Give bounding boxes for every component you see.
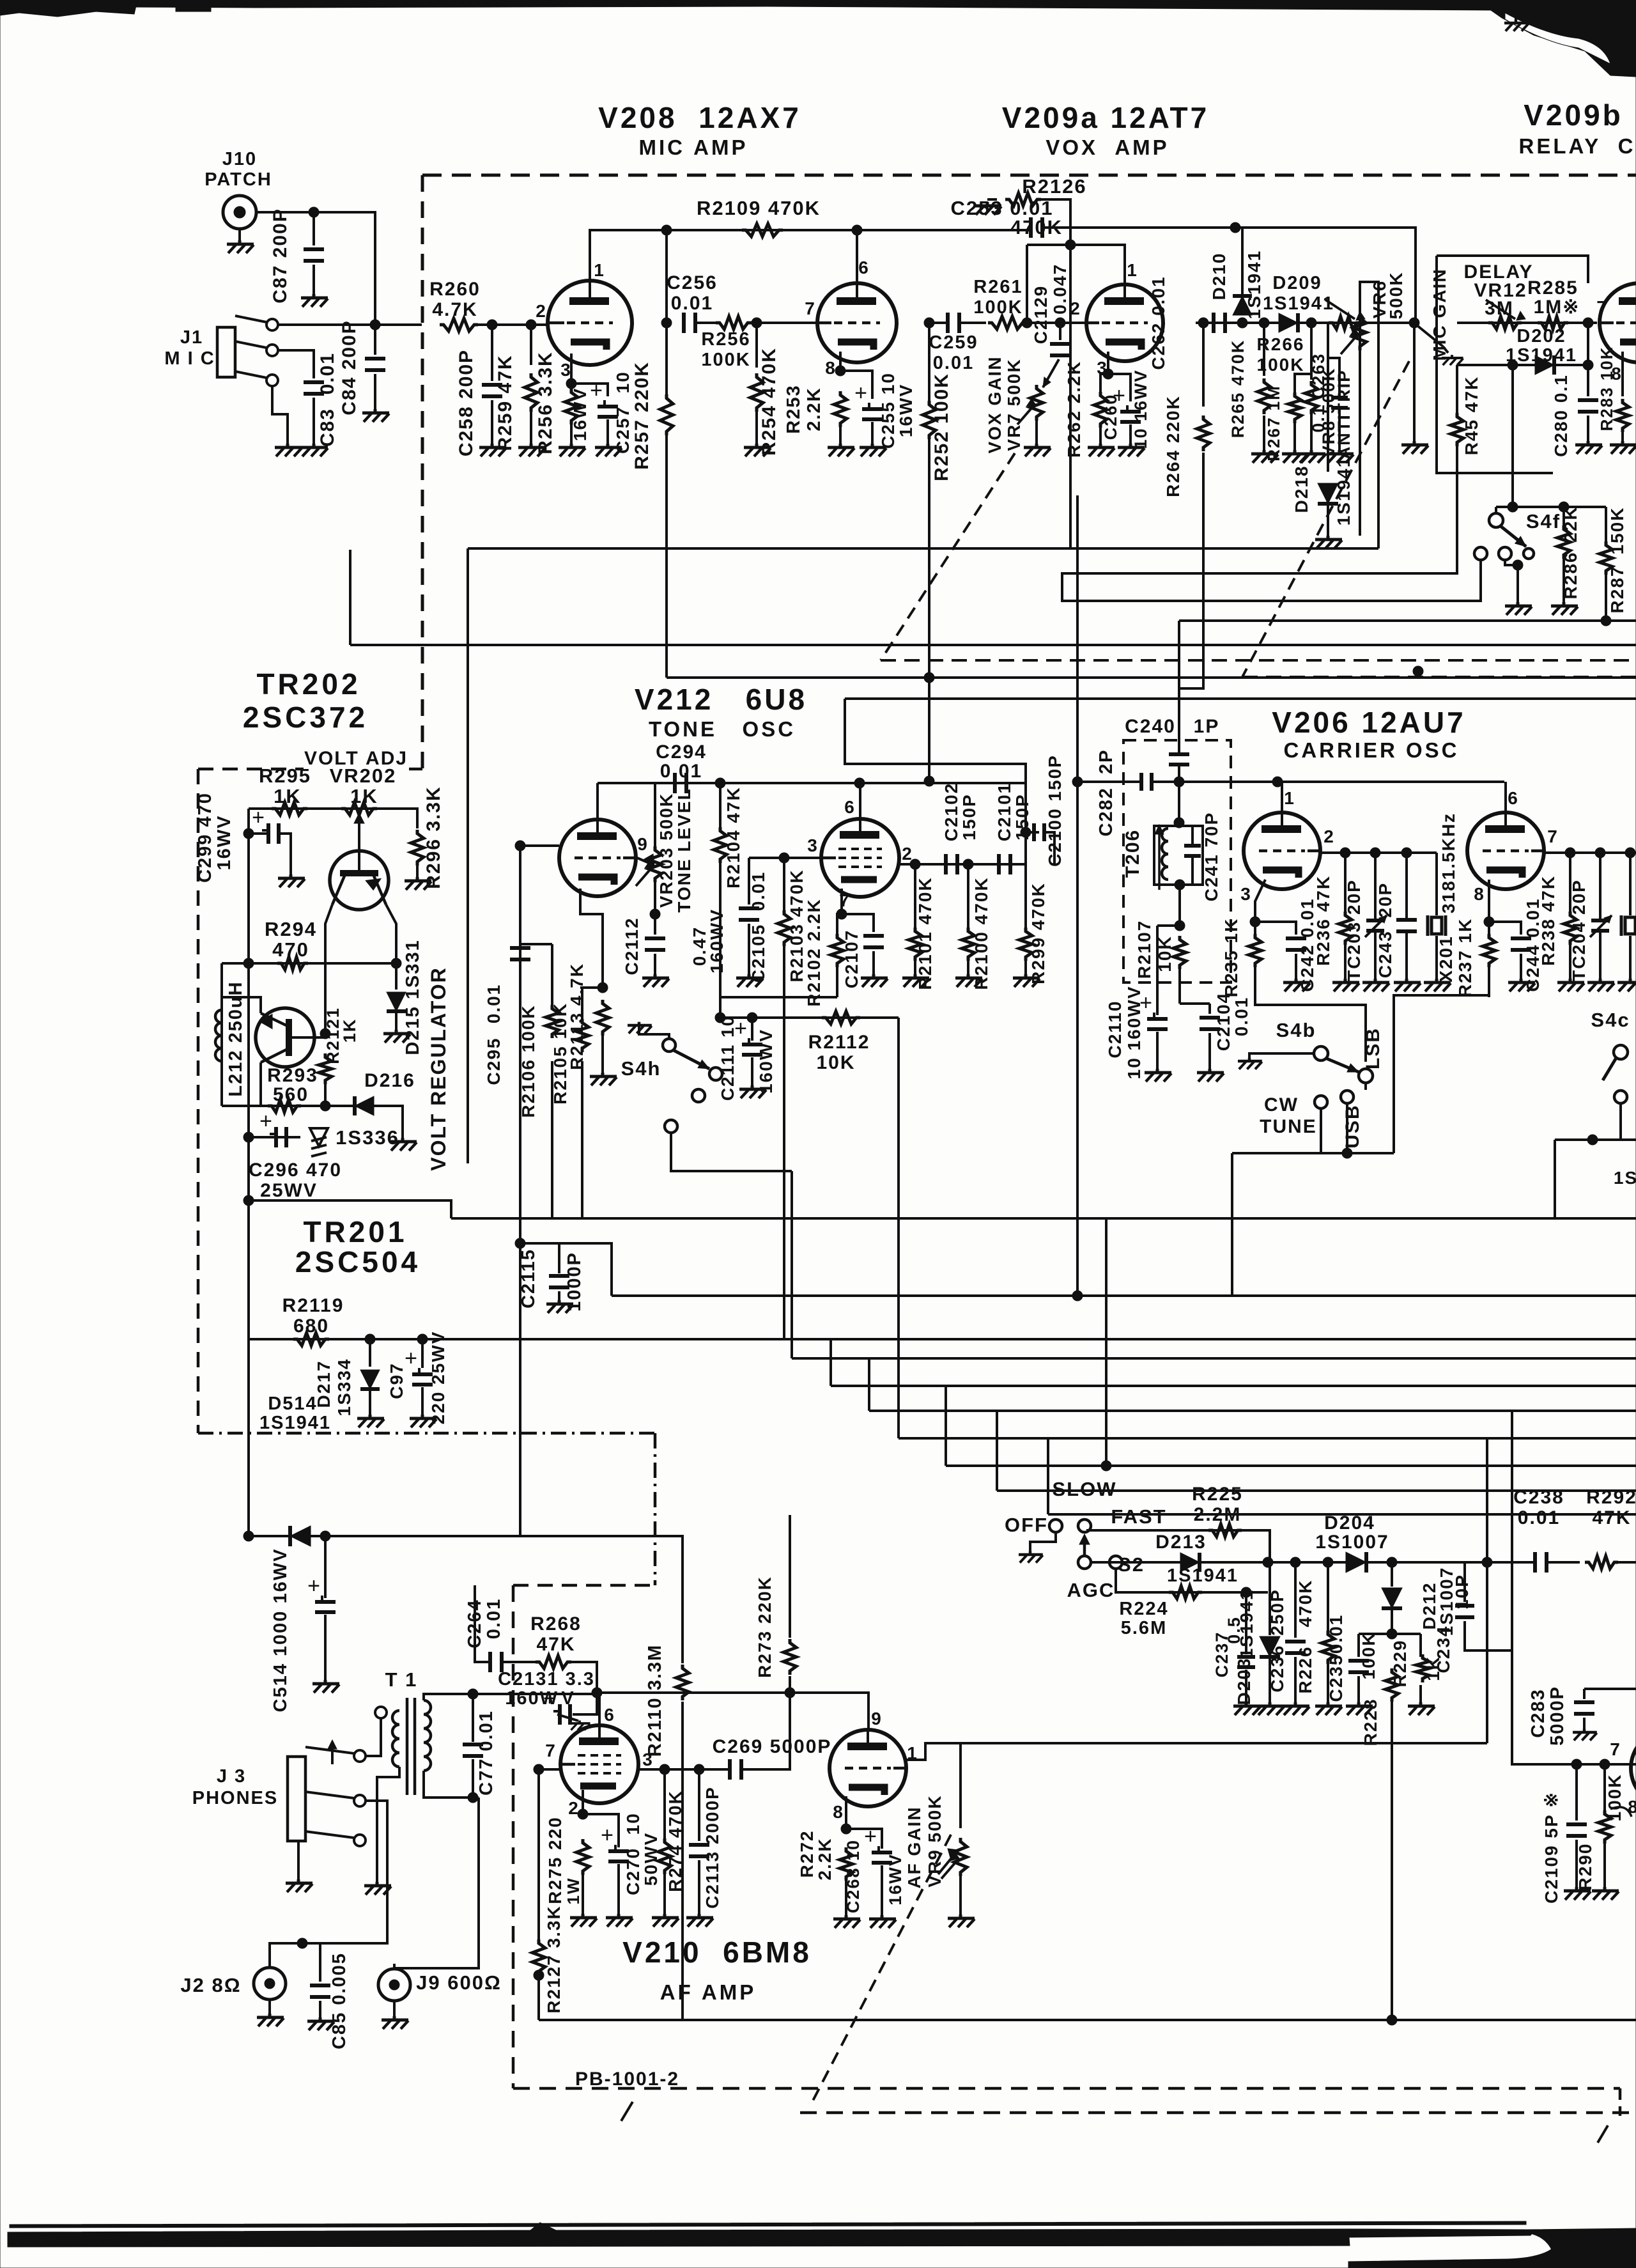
ground R299 ground	[1013, 974, 1040, 987]
wire C234 down	[1465, 1621, 1512, 1651]
svg-text:C2113 2000P: C2113 2000P	[702, 1786, 722, 1909]
svg-text:R299 470K: R299 470K	[1028, 882, 1048, 984]
switch contact S4c a	[1614, 1045, 1628, 1059]
wire S4f feed	[1511, 365, 1514, 507]
S4c lever	[1603, 1058, 1616, 1080]
wire relay stub 1	[1515, 10, 1517, 20]
wire X202 bottom	[1629, 936, 1632, 980]
svg-text:CARRIER OSC: CARRIER OSC	[1283, 738, 1459, 762]
wire C2100 right	[1044, 832, 1054, 864]
wire dashed VOLT ADJ edge2 (dashed)	[409, 768, 422, 771]
capacitor C257 (electrolytic)	[598, 405, 618, 408]
capacitor C2109	[1566, 1822, 1587, 1826]
wire pin7 wire V206b	[1543, 851, 1636, 854]
svg-text:S4c: S4c	[1591, 1009, 1630, 1031]
wire C237 stem	[1245, 1592, 1247, 1654]
svg-text:C97: C97	[387, 1362, 406, 1399]
ground C85 ground	[307, 2017, 334, 2030]
node node D210	[1237, 318, 1247, 328]
ground C97 ground	[410, 1415, 436, 1427]
wire TR201 emitter	[259, 1062, 262, 1106]
wire C235 drop	[1357, 1634, 1360, 1657]
wire x1686 long	[1076, 495, 1079, 1296]
scan artifact bottom bar	[8, 2223, 1350, 2247]
switch contact S4h c1	[709, 1068, 722, 1080]
svg-text:R2112: R2112	[808, 1032, 870, 1053]
svg-text:2: 2	[1323, 827, 1335, 846]
wire J9 top	[393, 1964, 396, 1969]
wire V212b plate lead	[859, 783, 861, 819]
capacitor C234v	[1455, 1604, 1474, 1608]
wire VR7 box drop	[467, 548, 469, 1163]
capacitor C242	[1286, 936, 1306, 940]
jack J10	[223, 196, 256, 229]
wire R2101 drop	[914, 864, 916, 930]
svg-text:R290: R290	[1575, 1843, 1595, 1891]
wire C2109 bottom	[1575, 1840, 1578, 1888]
svg-text:6: 6	[858, 258, 870, 277]
wire v2332	[996, 1411, 998, 1491]
capacitor C268 (electrolytic)	[872, 1851, 892, 1854]
ground D217 ground	[357, 1415, 384, 1427]
svg-text:100K: 100K	[1257, 355, 1305, 375]
resistor R260	[440, 318, 478, 331]
ground mic gain ground	[1442, 355, 1463, 365]
ground relay ground 1	[1504, 20, 1529, 31]
wire R2109 drop to C256	[665, 230, 668, 323]
wire C299 lead	[249, 832, 267, 835]
svg-text:R225: R225	[1192, 1484, 1243, 1505]
resistor R224 5.6M	[1169, 1586, 1202, 1599]
node V206a g node1	[1340, 848, 1350, 858]
svg-text:S4f: S4f	[1526, 510, 1561, 532]
wire cathode to C257	[571, 384, 608, 396]
svg-text:0.01: 0.01	[1518, 1507, 1560, 1528]
wire R228 line	[1359, 1633, 1421, 1635]
ground R259 ground	[518, 444, 545, 456]
node S4c node	[1587, 1135, 1598, 1145]
wire y2027 bus	[612, 1294, 1636, 1297]
svg-text:V210 6BM8: V210 6BM8	[622, 1936, 812, 1969]
ground R256 ground	[559, 444, 585, 456]
wire R262 bottom	[1099, 427, 1102, 445]
diode D204	[1346, 1552, 1366, 1573]
svg-text:+: +	[601, 1823, 613, 1847]
wiper of VR9	[941, 1860, 958, 1879]
ground VR9 ground	[948, 1915, 975, 1927]
ground X201 ground	[1424, 979, 1451, 991]
wire TR202 emitter down	[325, 905, 332, 1034]
svg-text:16WV: 16WV	[214, 815, 235, 871]
ground R267 ground	[1282, 450, 1309, 463]
svg-text:R254 470K: R254 470K	[759, 347, 780, 456]
svg-text:C83 0.01: C83 0.01	[317, 352, 338, 447]
svg-text:C2102: C2102	[941, 782, 961, 842]
node C2100 node	[1021, 827, 1031, 837]
switch contact AGC arm	[1078, 1556, 1091, 1569]
wire C2115 stem	[558, 1243, 560, 1273]
wiper of VR12	[1486, 300, 1515, 319]
ground C243 ground	[1394, 979, 1421, 991]
svg-text:10P: 10P	[1452, 1574, 1472, 1610]
wire D216 right	[374, 1106, 403, 1139]
ground R2113 ground	[590, 1073, 617, 1085]
ground R266 ground	[1299, 450, 1325, 463]
svg-text:0.047: 0.047	[1050, 263, 1070, 315]
ground TC204 ground	[1587, 979, 1614, 991]
resistor R285	[1538, 316, 1568, 329]
wire R290 bottom	[1603, 1844, 1606, 1888]
svg-text:C258 200P: C258 200P	[456, 349, 477, 456]
svg-text:C240: C240	[1125, 716, 1176, 737]
wire V210b cathode	[845, 1796, 847, 1829]
svg-text:1W: 1W	[564, 1877, 583, 1905]
J3 tip arrow	[331, 1744, 334, 1764]
wire R236 bottom	[1344, 945, 1347, 980]
wire D218 drop	[1327, 323, 1329, 472]
wire pin3 wire	[749, 857, 821, 859]
ground C280 ground	[1575, 441, 1602, 454]
capacitor C2107	[863, 934, 884, 938]
svg-text:R237 1K: R237 1K	[1455, 918, 1475, 998]
capacitor C85	[310, 1984, 330, 1987]
node D212 node	[1387, 1629, 1397, 1639]
wire dashed TR202 box left (dashed)	[197, 769, 200, 1433]
wire C280 bottom	[1587, 416, 1589, 442]
ground C268 ground	[869, 1915, 896, 1928]
node R290 node	[1600, 1759, 1610, 1769]
jack J2	[254, 1968, 286, 2000]
ground C2105 ground	[736, 974, 763, 987]
svg-text:10K: 10K	[816, 1052, 855, 1073]
wire R256 bottom	[570, 424, 573, 445]
wire R296 bottom	[416, 866, 419, 878]
svg-text:R2107: R2107	[1134, 920, 1154, 979]
wire v2327	[1486, 1438, 1488, 1561]
wire VR6 gnd drop	[1413, 323, 1416, 442]
svg-text:C85 0.005: C85 0.005	[329, 1952, 350, 2049]
node R2113 node	[598, 983, 608, 993]
svg-text:6: 6	[604, 1705, 615, 1725]
wire T1 sec bottom	[424, 1771, 479, 1798]
svg-text:R292: R292	[1586, 1487, 1636, 1508]
resistor R295 1K	[272, 802, 307, 815]
svg-text:C241 70P: C241 70P	[1201, 812, 1221, 902]
node node VR6 out	[1409, 318, 1419, 328]
wire V210a grid drop	[537, 1769, 540, 1940]
wire dashed bus 1059 (dashed)	[1242, 676, 1636, 678]
wire C242 link	[1255, 922, 1296, 935]
svg-text:2: 2	[1070, 299, 1081, 318]
svg-text:C299 470: C299 470	[195, 792, 215, 883]
wire dashed vox linkage (dashed)	[881, 453, 1015, 660]
mark bottom right slash	[1598, 2125, 1608, 2143]
wire D217 bottom	[369, 1391, 371, 1416]
node S4f common node	[1513, 560, 1523, 570]
ground R226 ground	[1315, 1702, 1342, 1715]
wire R259 lead	[530, 325, 532, 365]
wire R2104 lower	[719, 863, 722, 1018]
capacitor C255 (electrolytic)	[862, 407, 883, 411]
ground R2126 ground	[975, 202, 1001, 215]
wire C85 link	[302, 1943, 320, 1982]
wire R2103 drop	[783, 858, 785, 910]
svg-text:100K: 100K	[701, 350, 750, 370]
wire R272 bottom	[845, 1881, 847, 1916]
wire C259 to R261	[959, 322, 986, 324]
svg-text:1S1007: 1S1007	[1315, 1532, 1389, 1553]
svg-text:R265 470K: R265 470K	[1228, 339, 1247, 439]
wire R265 bottom	[1263, 416, 1265, 451]
ground D203 ground	[1257, 1702, 1284, 1715]
ground S4b ground	[1238, 1058, 1262, 1069]
svg-text:D218: D218	[1292, 465, 1311, 513]
svg-text:TONE OSC: TONE OSC	[649, 717, 796, 741]
svg-text:470: 470	[272, 938, 309, 961]
svg-text:C256: C256	[667, 272, 718, 293]
svg-text:10 160WV: 10 160WV	[1124, 986, 1144, 1080]
svg-text:2.2K: 2.2K	[815, 1837, 835, 1880]
wire dashed mic linkage (dashed)	[1242, 361, 1409, 677]
wire D217 drop	[369, 1339, 371, 1367]
node node R252	[924, 318, 934, 328]
wire D203 drop	[1269, 1562, 1271, 1635]
svg-text:V209a 12AT7: V209a 12AT7	[1002, 101, 1209, 134]
wire V208a cathode	[570, 353, 573, 384]
switch contact S4f c1	[1474, 547, 1487, 560]
svg-text:C2107: C2107	[842, 929, 861, 989]
svg-text:7: 7	[545, 1741, 557, 1760]
wire R45 drop	[1456, 365, 1458, 416]
wire R2107 bottom	[1178, 969, 1181, 1004]
diode D216	[355, 1096, 374, 1115]
resistor R290 100K	[1598, 1810, 1611, 1844]
svg-text:C243 20P: C243 20P	[1375, 882, 1395, 978]
svg-text:R236 47K: R236 47K	[1313, 875, 1333, 966]
svg-text:150K: 150K	[1607, 507, 1627, 555]
ground VR6 ground	[1401, 441, 1428, 454]
wire C240 feed	[1178, 621, 1180, 754]
wire R45 box left	[1437, 256, 1553, 473]
svg-text:0.01: 0.01	[660, 761, 702, 782]
wire X201 top	[1435, 853, 1438, 915]
wire C241 bottom	[1191, 856, 1194, 885]
node S2 node d	[1323, 1557, 1333, 1567]
diode D209	[1279, 313, 1298, 332]
switch contact FAST contact	[1109, 1556, 1122, 1569]
wire S4c box	[1555, 1138, 1636, 1141]
wire R228 down	[1391, 1702, 1393, 2020]
wire R2112 line	[720, 1016, 899, 1019]
wiper VR202 arrow	[358, 817, 360, 858]
wiper of VR8 500K	[1341, 335, 1357, 354]
svg-text:160WV: 160WV	[756, 1029, 776, 1094]
wire D212 drop	[1391, 1562, 1393, 1587]
capacitor C282	[1139, 773, 1143, 791]
node node C259-R261	[1022, 318, 1032, 328]
scan artifact bottom curl band	[1348, 2229, 1532, 2237]
wire C259 wire	[929, 322, 948, 324]
node R273 node	[785, 1688, 795, 1698]
wire C258 bottom	[491, 400, 493, 445]
node S2 node b	[1263, 1557, 1273, 1567]
node C294 node a	[715, 778, 725, 788]
svg-text:R287: R287	[1607, 566, 1627, 614]
wire C2107 link	[842, 914, 874, 932]
svg-text:250P: 250P	[1267, 1588, 1287, 1635]
capacitor C2110 (electrolytic)	[1147, 1017, 1168, 1021]
jack J9	[378, 1969, 410, 2001]
wire C238 line	[1465, 1561, 1535, 1564]
wire v2369	[1047, 1438, 1049, 1514]
switch contact SLOW contact	[1078, 1519, 1091, 1532]
svg-text:+: +	[854, 381, 867, 405]
tube V212a	[559, 819, 636, 896]
svg-text:TC203 20P: TC203 20P	[1344, 879, 1364, 981]
wire C83 bottom	[313, 398, 315, 445]
switch contact S4c b	[1614, 1091, 1627, 1103]
wire R229 drop	[1419, 1634, 1422, 1657]
wire R2126 gnd lead	[987, 198, 997, 201]
capacitor C240	[1169, 752, 1189, 756]
resistor R237 1K	[1483, 934, 1495, 967]
wire R45 box top	[1437, 256, 1588, 283]
svg-text:1: 1	[1284, 788, 1295, 808]
wire V209b cathode drop	[1621, 352, 1624, 396]
svg-text:160W V: 160W V	[505, 1688, 575, 1709]
capacitor C2101	[997, 854, 1001, 874]
wire dashed PB-1001-2 bottom (dashed)	[513, 2087, 1620, 2090]
node y2027 node	[1072, 1291, 1083, 1301]
svg-text:1K: 1K	[274, 785, 302, 807]
svg-text:R285: R285	[1527, 277, 1578, 299]
resistor R257 220K	[660, 394, 673, 435]
svg-text:PHONES: PHONES	[192, 1788, 278, 1808]
svg-text:3: 3	[807, 835, 819, 855]
wire C237 bottom	[1245, 1670, 1247, 1704]
svg-text:R256 3.3K: R256 3.3K	[535, 351, 556, 454]
capacitor C256	[682, 313, 686, 333]
ground T1 ground	[364, 1882, 391, 1895]
ground S4h ground	[628, 1022, 652, 1034]
wire R264 long drop	[1179, 453, 1203, 688]
wire C244 bottom	[1520, 954, 1522, 980]
svg-text:C260: C260	[1101, 394, 1120, 440]
wire v1239	[791, 1171, 793, 1358]
svg-text:R2119: R2119	[282, 1295, 344, 1316]
svg-text:J2 8Ω: J2 8Ω	[180, 1974, 241, 1996]
node pin7 node	[837, 909, 847, 919]
node S2 node c	[1290, 1557, 1300, 1567]
wire V208a plate to R2109	[590, 230, 929, 281]
wire C2100 stub	[1026, 831, 1039, 834]
ground R283 ground	[1610, 441, 1636, 454]
wire TC204 bottom	[1599, 931, 1601, 980]
svg-text:0.01: 0.01	[1231, 997, 1251, 1037]
svg-text:D217: D217	[314, 1360, 334, 1408]
svg-text:R266: R266	[1257, 334, 1305, 354]
svg-text:C268 10: C268 10	[844, 1839, 863, 1913]
ground R286 ground	[1551, 602, 1578, 615]
wire R292 right	[1618, 1561, 1636, 1564]
scan artifact bottom thin line	[10, 2221, 1526, 2228]
svg-text:1S1941: 1S1941	[1263, 293, 1334, 314]
wire C295 drop	[519, 846, 521, 944]
svg-text:+: +	[259, 1109, 272, 1133]
wire delay line	[1457, 322, 1597, 324]
capacitor C295	[510, 946, 530, 950]
node C238 node	[1482, 1557, 1492, 1567]
svg-text:V212 6U8: V212 6U8	[635, 683, 807, 716]
ground VR7 ground	[1024, 444, 1051, 456]
svg-text:100K: 100K	[1359, 1632, 1378, 1680]
svg-text:LSB: LSB	[1362, 1027, 1384, 1069]
svg-text:8: 8	[833, 1802, 844, 1822]
svg-text:AF GAIN: AF GAIN	[904, 1806, 924, 1888]
wire T206 drop	[1178, 885, 1181, 926]
wire x548 drop	[349, 550, 351, 645]
tube V210b	[830, 1730, 906, 1806]
svg-text:8: 8	[1474, 884, 1485, 904]
wire C2111 stem	[751, 1018, 753, 1041]
wire R286 bottom	[1563, 559, 1565, 603]
svg-text:R2100 470K: R2100 470K	[971, 876, 991, 990]
wire C296 wire	[249, 1200, 451, 1218]
node V210a in node	[534, 1764, 544, 1775]
scan artifact top right blob	[1489, 0, 1636, 77]
diode D202	[1535, 355, 1554, 375]
node node S4f b	[1559, 502, 1569, 512]
wire C257 bottom	[606, 419, 609, 445]
svg-text:R45 47K: R45 47K	[1462, 376, 1481, 456]
wire V210a out	[639, 1768, 730, 1771]
ground R254 ground	[744, 444, 771, 456]
svg-text:MIC GAIN: MIC GAIN	[1430, 268, 1449, 361]
node node C258	[487, 320, 497, 330]
node node R259	[526, 320, 536, 330]
wire C299 right	[280, 834, 291, 876]
wire T1 prim bottom	[377, 1767, 399, 1883]
wire C85 bottom	[319, 2001, 321, 2019]
svg-text:VOX AMP: VOX AMP	[1046, 136, 1169, 159]
wire V206a cathode	[1255, 880, 1265, 935]
node C299 node	[243, 828, 254, 839]
svg-text:1S1941: 1S1941	[1167, 1565, 1239, 1586]
wire R2113 bottom	[601, 1036, 604, 1074]
wire V210a in wire	[539, 1768, 560, 1771]
box VR8 antitrip	[1360, 282, 1378, 548]
tube V206b	[1467, 812, 1544, 889]
wire R256 to V208b grid	[752, 322, 817, 324]
mark bottom slash left	[621, 2102, 633, 2121]
wire V212a plate lead	[596, 783, 599, 819]
wire TC203 top	[1374, 853, 1377, 920]
svg-text:D216: D216	[364, 1070, 415, 1091]
resistor R292 47K	[1585, 1556, 1618, 1569]
capacitor C2129	[1050, 342, 1070, 346]
svg-text:R253: R253	[783, 384, 804, 433]
svg-text:C2112: C2112	[622, 917, 642, 975]
svg-text:CW: CW	[1264, 1094, 1299, 1115]
node node pin7 V209b	[1583, 318, 1593, 328]
wire R267 branch	[1295, 374, 1311, 394]
trimmer TC204	[1591, 919, 1609, 922]
ground relay ground 2	[1549, 20, 1573, 31]
node R2127 node	[534, 1970, 544, 1980]
ground C270 ground	[606, 1914, 633, 1927]
svg-text:4.7K: 4.7K	[432, 299, 477, 320]
wire v814	[519, 846, 521, 1536]
